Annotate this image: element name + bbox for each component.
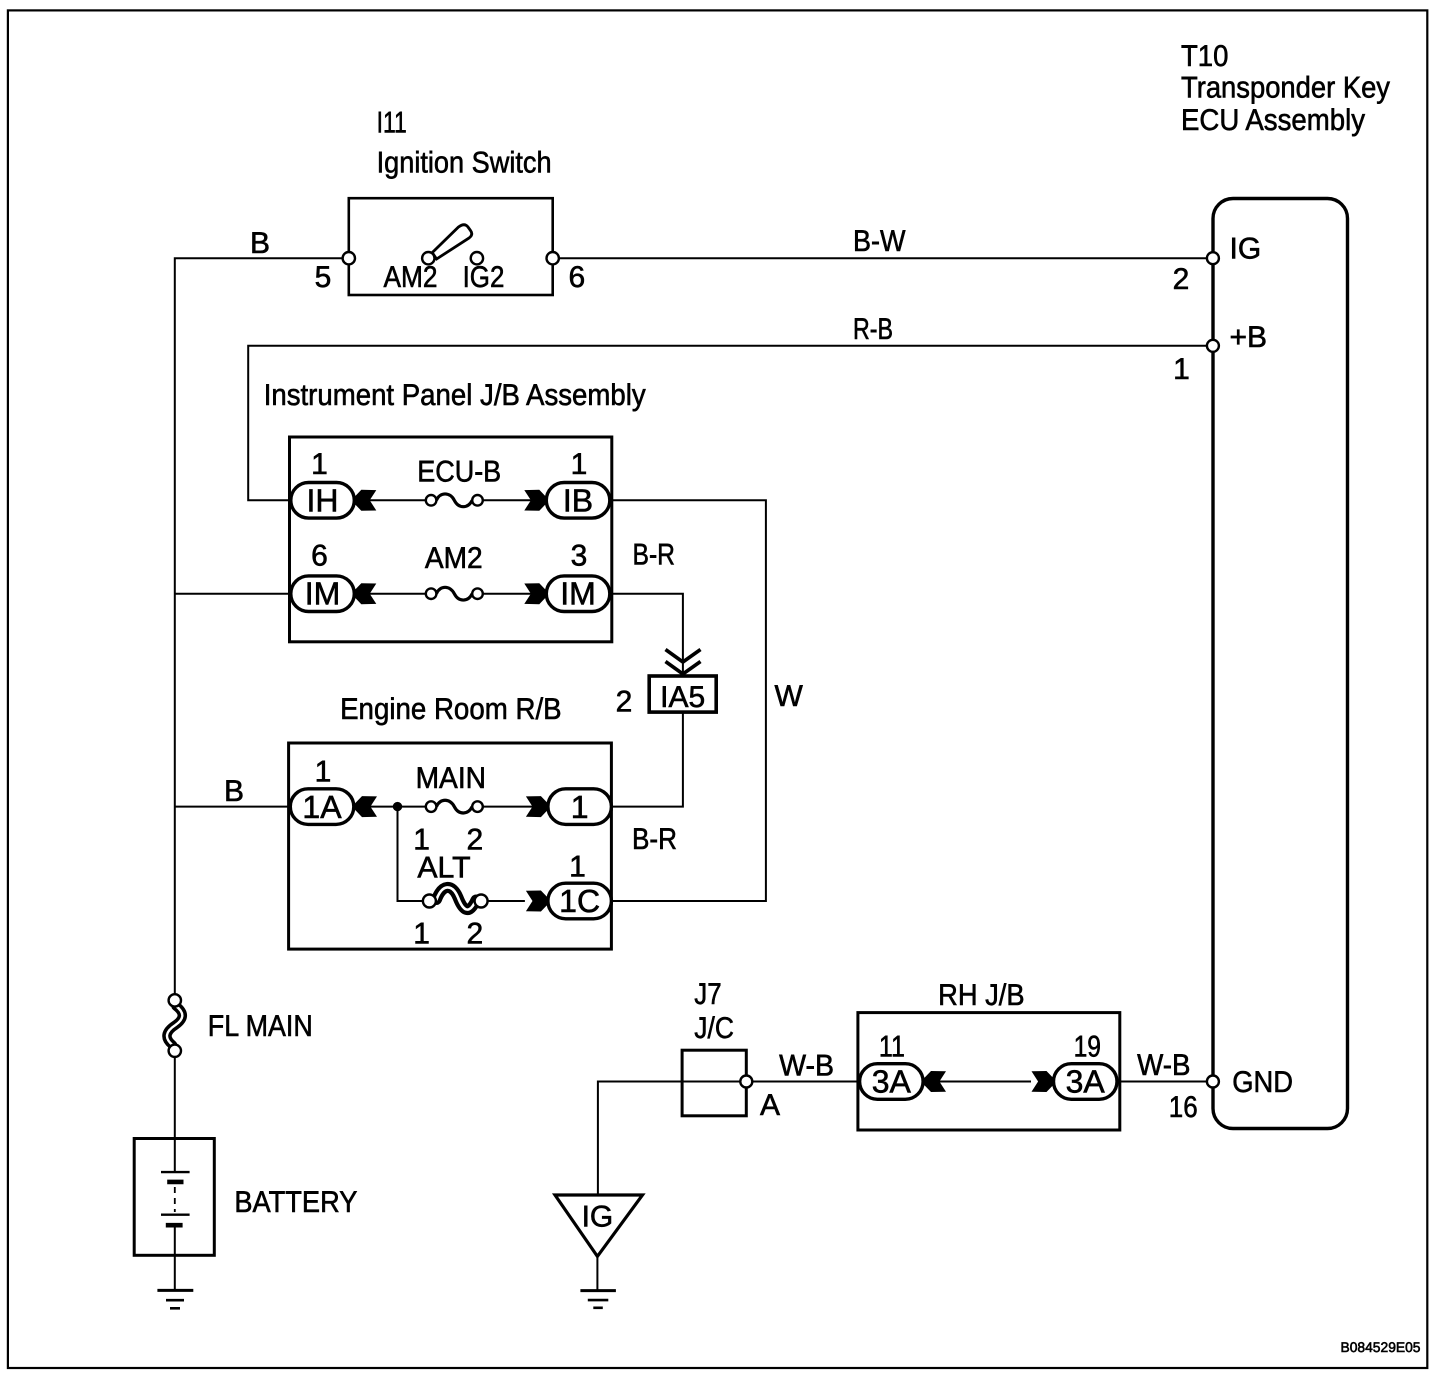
svg-text:B-W: B-W <box>853 225 906 258</box>
svg-text:6: 6 <box>311 540 328 573</box>
svg-text:ECU-B: ECU-B <box>417 456 501 489</box>
svg-text:RH J/B: RH J/B <box>938 979 1025 1012</box>
ignition switch I11 box <box>349 198 553 295</box>
svg-text:B-R: B-R <box>632 823 677 856</box>
wire battery to ground <box>174 1255 176 1290</box>
wire J/C to RH J/B <box>752 1081 859 1083</box>
svg-text:A: A <box>760 1089 780 1122</box>
svg-text:IG: IG <box>1230 233 1262 266</box>
svg-text:ECU Assembly: ECU Assembly <box>1181 104 1365 137</box>
svg-text:1C: 1C <box>559 883 600 919</box>
fuse AM2 <box>426 587 483 600</box>
wire ALT right segment <box>488 900 525 902</box>
svg-text:3A: 3A <box>872 1063 912 1099</box>
Engine Room R/B box <box>289 743 612 949</box>
junction dot <box>393 802 402 811</box>
svg-text:19: 19 <box>1074 1031 1101 1064</box>
svg-text:BATTERY: BATTERY <box>234 1186 357 1219</box>
label I11 Ignition Switch <box>377 107 552 180</box>
wire branch to IM pin 6 <box>175 593 291 595</box>
terminal GND on ECU <box>1207 1076 1219 1088</box>
wire row ECU-B right segment <box>482 499 546 501</box>
wire row AM2 left segment <box>354 593 427 595</box>
svg-text:2: 2 <box>1173 263 1190 296</box>
battery box <box>134 1139 214 1256</box>
svg-text:IG: IG <box>582 1200 614 1233</box>
ECU T10 body <box>1213 199 1348 1129</box>
arrow left (3A) <box>924 1071 946 1092</box>
svg-text:2: 2 <box>467 918 484 951</box>
svg-text:1: 1 <box>315 755 332 788</box>
connector 1A <box>290 789 354 825</box>
svg-text:FL MAIN: FL MAIN <box>208 1010 313 1043</box>
wire inside RH J/B <box>923 1081 1031 1083</box>
svg-text:1: 1 <box>569 850 586 883</box>
svg-text:1: 1 <box>413 918 430 951</box>
svg-text:IA5: IA5 <box>660 681 705 714</box>
svg-text:IG2: IG2 <box>463 261 505 294</box>
svg-text:ALT: ALT <box>417 852 470 885</box>
svg-text:IB: IB <box>563 482 593 518</box>
svg-text:2: 2 <box>616 686 633 719</box>
svg-text:AM2: AM2 <box>384 261 438 294</box>
svg-text:1A: 1A <box>302 789 342 825</box>
connector 1C <box>548 883 612 919</box>
wire IA5 to MAIN fuse row <box>611 712 683 807</box>
connector 1 <box>548 789 612 825</box>
wire FL MAIN to battery <box>174 1057 176 1139</box>
wire IB to node W vertical <box>610 500 766 901</box>
svg-text:+B: +B <box>1230 321 1268 354</box>
svg-text:W-B: W-B <box>779 1050 834 1083</box>
terminal AM2 <box>422 252 434 264</box>
ground (battery) <box>157 1290 193 1308</box>
svg-text:J7: J7 <box>694 978 721 1011</box>
wire row ECU-B left segment <box>354 499 427 501</box>
svg-text:I11: I11 <box>377 107 407 140</box>
arrow right (3A) <box>1032 1071 1054 1092</box>
switch lever <box>432 225 472 259</box>
svg-text:IM: IM <box>560 576 596 612</box>
svg-text:IH: IH <box>307 482 339 518</box>
wire IM to IA5 <box>610 594 683 676</box>
svg-text:3: 3 <box>571 540 588 573</box>
terminal A on J/C <box>740 1076 752 1088</box>
svg-text:Ignition Switch: Ignition Switch <box>377 147 552 180</box>
svg-text:1: 1 <box>311 448 328 481</box>
wire W-B from IG ground branch through J/C <box>598 1082 740 1196</box>
connector IM left <box>291 576 355 612</box>
wire R-B from ECU +B to IH pin 1 <box>248 346 1213 501</box>
svg-text:W: W <box>775 680 804 713</box>
wire row MAIN right segment <box>482 806 548 808</box>
fuse MAIN <box>426 800 483 813</box>
svg-text:1: 1 <box>571 789 589 825</box>
wire RH J/B to ECU GND <box>1117 1081 1206 1083</box>
svg-text:6: 6 <box>569 261 586 294</box>
RH J/B box <box>858 1013 1120 1130</box>
svg-text:16: 16 <box>1169 1091 1198 1124</box>
battery cells <box>161 1139 190 1256</box>
ground symbol IG triangle <box>555 1195 643 1256</box>
terminal 6 (ignition box right) <box>547 252 559 264</box>
junction connector J7 J/C box <box>682 1050 746 1116</box>
svg-text:B-R: B-R <box>633 539 676 572</box>
svg-text:Engine Room R/B: Engine Room R/B <box>340 693 561 726</box>
svg-text:5: 5 <box>315 261 332 294</box>
connector IA5 <box>649 676 716 714</box>
wire B-W ignition switch pin 6 to ECU IG <box>553 257 1213 259</box>
connector IH <box>291 482 355 518</box>
connector arrow into IA5 <box>666 650 701 675</box>
wire IG triangle to ground <box>596 1256 598 1290</box>
fusible link FL MAIN <box>167 994 182 1057</box>
wire row AM2 right segment <box>482 593 546 595</box>
svg-text:1: 1 <box>571 448 588 481</box>
fuse ECU-B <box>426 494 483 507</box>
svg-text:Instrument Panel J/B Assembly: Instrument Panel J/B Assembly <box>264 379 646 412</box>
svg-text:B: B <box>224 775 244 808</box>
arrow right (IB) <box>524 490 546 511</box>
fusible link ALT <box>423 887 488 909</box>
svg-text:11: 11 <box>879 1031 905 1064</box>
arrow left (1A) <box>355 796 377 817</box>
wire branch to 1A pin 1 <box>175 806 290 808</box>
label J7 J/C <box>694 978 734 1045</box>
terminal IG on ECU <box>1207 252 1219 264</box>
arrow left (IM) <box>354 583 376 604</box>
arrow right (1C) <box>526 891 548 912</box>
Instrument Panel J/B box <box>290 437 612 642</box>
svg-text:IM: IM <box>305 576 341 612</box>
svg-text:Transponder Key: Transponder Key <box>1181 72 1390 105</box>
arrow left (IH) <box>354 490 376 511</box>
svg-text:J/C: J/C <box>694 1012 734 1045</box>
terminal +B on ECU <box>1207 340 1219 352</box>
svg-text:AM2: AM2 <box>425 542 483 575</box>
svg-text:T10: T10 <box>1181 40 1228 73</box>
svg-text:B084529E05: B084529E05 <box>1341 1339 1421 1355</box>
wire B from ignition switch pin 5 down the left side <box>175 258 349 994</box>
arrow right (1) <box>526 796 548 817</box>
connector IM right <box>546 576 610 612</box>
terminal IG2 <box>471 252 483 264</box>
svg-text:W-B: W-B <box>1137 1049 1190 1082</box>
connector 3A left <box>860 1063 924 1099</box>
svg-text:B: B <box>250 227 270 260</box>
svg-text:R-B: R-B <box>853 313 893 346</box>
svg-text:MAIN: MAIN <box>416 762 486 795</box>
svg-text:GND: GND <box>1232 1066 1293 1099</box>
arrow right (IM) <box>524 583 546 604</box>
connector IB <box>546 482 610 518</box>
label T10 Transponder Key ECU Assembly <box>1181 40 1390 137</box>
svg-text:3A: 3A <box>1066 1063 1106 1099</box>
ground (IG) <box>580 1291 616 1308</box>
connector 3A right <box>1054 1063 1118 1099</box>
svg-text:1: 1 <box>1173 353 1190 386</box>
wire row MAIN left segment <box>354 806 427 808</box>
wire junction to ALT <box>398 807 424 901</box>
terminal 5 (ignition box left) <box>343 252 355 264</box>
